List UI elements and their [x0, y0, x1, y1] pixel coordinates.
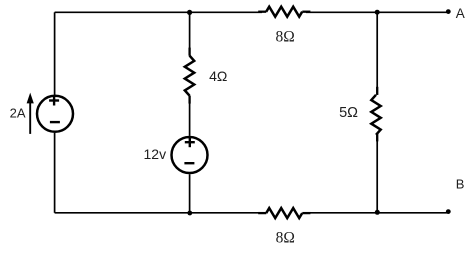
svg-text:2A: 2A: [10, 105, 26, 120]
svg-text:8Ω: 8Ω: [276, 28, 295, 45]
svg-text:8Ω: 8Ω: [276, 230, 295, 247]
svg-text:A: A: [456, 6, 465, 21]
svg-text:12v: 12v: [144, 146, 167, 162]
svg-text:4Ω: 4Ω: [209, 68, 227, 84]
svg-text:B: B: [456, 177, 465, 192]
svg-text:5Ω: 5Ω: [339, 105, 358, 121]
